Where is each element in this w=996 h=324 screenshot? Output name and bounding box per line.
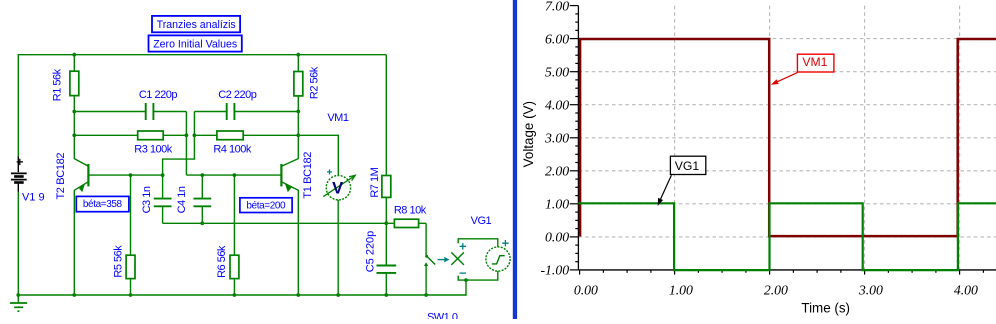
splitter bar [513,0,517,319]
svg-text:0.00: 0.00 [545,230,569,245]
node dot R4 right [296,133,300,137]
wire VM1 feed [298,135,338,176]
svg-text:R2 56k: R2 56k [308,66,320,99]
x axis labels [574,282,978,297]
y axis labels [540,0,569,278]
svg-text:R4 100k: R4 100k [213,144,251,156]
svg-text:R5 56k: R5 56k [112,245,124,278]
capacitor C2 [194,103,298,120]
wire top rail [18,54,386,56]
capacitor C5 [377,266,397,296]
title box: Zero Initial Values [149,35,242,51]
title box: Tranzies analizis [152,16,240,32]
svg-text:3.00: 3.00 [858,282,883,297]
node dot rail VM1 [336,293,340,297]
svg-text:R3 100k: R3 100k [134,143,172,155]
svg-text:T1 BC182: T1 BC182 [302,152,314,199]
wire VM1 bottom [337,200,339,295]
wire left rail upper [17,54,19,157]
generator VG1 [458,239,510,280]
wire C1C2 row left [74,111,146,113]
svg-text:3.00: 3.00 [544,131,569,146]
node dot caps rail R7 [384,221,388,225]
svg-text:C5 220p: C5 220p [364,231,376,273]
resistor R3 [138,131,187,140]
wire net B step [163,135,195,175]
capacitor C3 [154,175,172,223]
svg-text:1.00: 1.00 [669,282,693,297]
wire C2 left drop [193,112,195,136]
svg-text:V1 9: V1 9 [22,192,45,204]
wire T1 base row [186,174,280,176]
svg-text:1.00: 1.00 [545,197,569,212]
node dot VG1 out [464,278,468,282]
node dot C4 top [200,173,204,177]
resistor R6 [230,175,239,295]
wire left rail lower [17,191,19,295]
resistor R2 [294,55,303,159]
node dot net B top [193,133,197,137]
svg-text:C3 1n: C3 1n [141,186,153,213]
capacitor C1 [146,103,187,120]
node dot net A top [185,133,189,137]
node dot rail C5 [384,293,388,297]
svg-text:Zero Initial Values: Zero Initial Values [153,38,237,50]
svg-text:0.00: 0.00 [574,282,598,297]
resistor R4 [194,131,298,140]
resistor R1 [70,55,79,159]
beta box 358 [76,196,129,211]
trace VG1 [578,203,996,270]
svg-text:2.00: 2.00 [545,164,569,179]
node dot C2 right [296,110,300,114]
svg-text:béta=358: béta=358 [83,199,123,210]
svg-text:R8 10k: R8 10k [394,205,427,217]
node dot caps rail C4 [200,221,204,225]
node dot rail R5 [129,293,133,297]
node dot top rail R1 [72,53,76,57]
wire net A drop [185,135,187,175]
switch arrow [438,257,450,262]
svg-text:4.00: 4.00 [545,98,569,113]
svg-text:VG1: VG1 [471,215,492,227]
wire VG1 riser [465,280,467,296]
svg-text:7.00: 7.00 [545,0,569,13]
capacitor C4 [194,175,212,223]
svg-text:C1 220p: C1 220p [139,89,177,101]
svg-text:VG1: VG1 [675,159,700,173]
label box VM1 [771,54,834,85]
chart gridlines [578,6,996,270]
node dot rail T1 emitter [296,293,300,297]
svg-text:Tranzies analízis: Tranzies analízis [157,19,236,31]
switch SW1 [424,223,435,295]
svg-text:Voltage (V): Voltage (V) [521,101,536,167]
svg-text:5.00: 5.00 [545,65,569,80]
chart axes [578,6,996,270]
battery V1 [11,156,27,191]
transistor T1 [281,159,298,295]
voltmeter VM1 [323,169,355,200]
node dot R6 top [233,173,237,177]
switch cross [451,252,464,265]
svg-text:béta=200: béta=200 [246,200,286,211]
node dot rail SW1 [424,293,428,297]
svg-text:C2 220p: C2 220p [218,89,256,101]
svg-text:V: V [332,179,343,197]
node dot C1 left [72,110,76,114]
svg-text:R1 56k: R1 56k [51,68,63,101]
trace VM1 [580,39,996,237]
wire ground rail [18,294,466,296]
x axis ticks [580,270,984,275]
svg-text:SW1.0: SW1.0 [427,312,458,319]
resistor R7 [382,55,391,266]
svg-text:4.00: 4.00 [954,282,978,297]
ground [10,295,27,311]
svg-text:VM1: VM1 [802,55,827,69]
wire T2 base row [89,174,162,176]
resistor R5 [126,175,135,295]
node dot top rail R2 [296,53,300,57]
svg-text:R6 56k: R6 56k [216,245,228,278]
node dot rail T2 emitter [72,293,76,297]
node dot R5 top [129,173,133,177]
beta box 200 [240,198,292,213]
wire C1 right drop [185,112,187,136]
wire R3R4 row left [74,134,138,136]
svg-text:R7 1M: R7 1M [369,167,381,197]
svg-text:-1.00: -1.00 [540,263,569,278]
y axis ticks [570,6,579,270]
transistor T2 [74,159,88,295]
node dot R3 left [72,133,76,137]
svg-text:VM1: VM1 [327,112,349,124]
node dot C3 top [161,173,165,177]
wire caps bottom rail [163,222,387,224]
node dot rail R6 [233,293,237,297]
svg-text:2.00: 2.00 [764,282,788,297]
svg-text:Time (s): Time (s) [801,301,850,316]
resistor R8 [386,219,426,227]
label box VG1 [658,156,706,206]
svg-text:C4 1n: C4 1n [176,186,188,213]
node dot rail battery [16,293,20,297]
svg-text:T2 BC182: T2 BC182 [55,153,67,200]
svg-text:6.00: 6.00 [545,31,569,46]
